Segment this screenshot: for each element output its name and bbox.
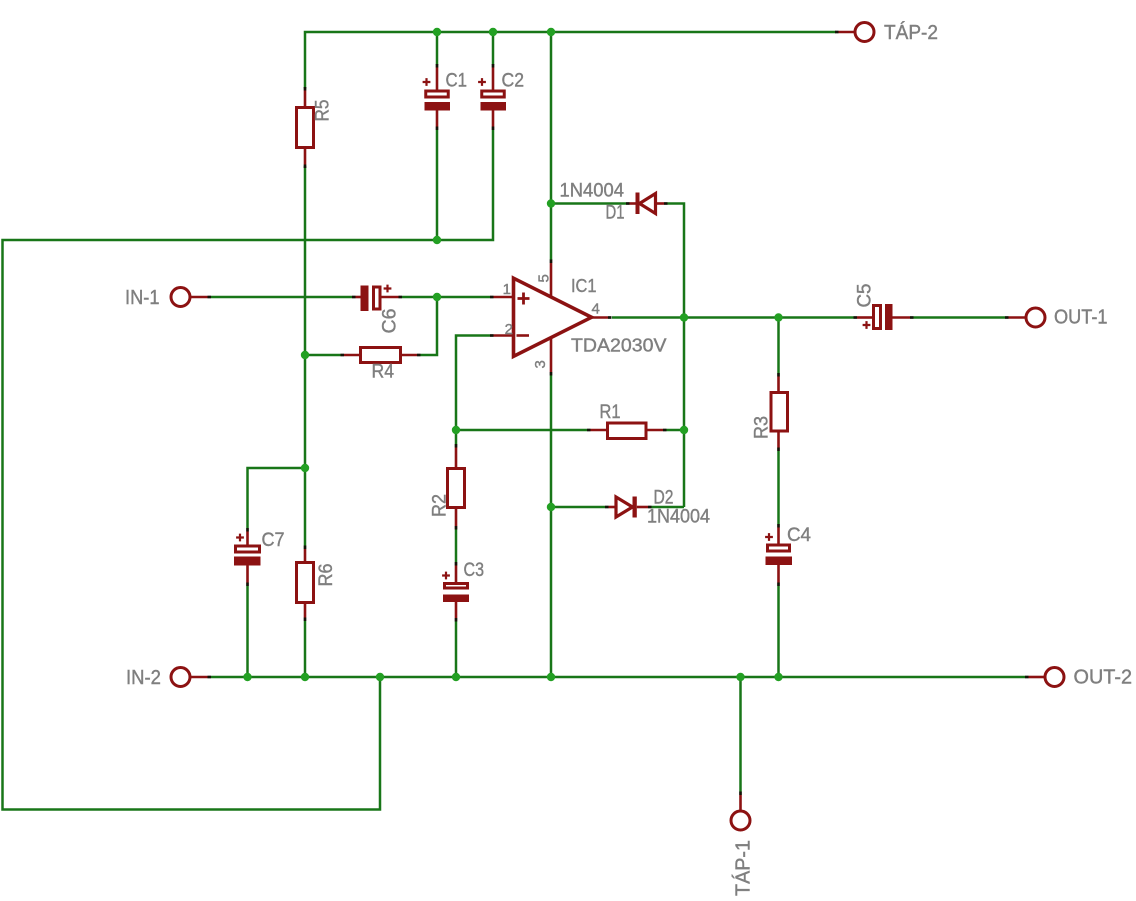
terminal IN-2 <box>171 668 211 687</box>
wire C7 bottom to bottom bus <box>246 586 249 677</box>
wire from x=305 node left and down to C7 top <box>248 468 306 528</box>
svg-text:IN-2: IN-2 <box>126 667 161 689</box>
diode D1 <box>626 193 668 215</box>
wire IC1 pin 2 route left and down to R1 row <box>456 336 490 445</box>
wire big left feedback loop from C2 bottom around left edge to bottom <box>3 130 494 810</box>
wire top supply bus from R5 to TAP-2 terminal <box>305 32 836 89</box>
junction x305 net / R4 row <box>301 351 309 359</box>
svg-text:OUT-2: OUT-2 <box>1074 667 1133 689</box>
junction top bus / C1 <box>433 28 441 36</box>
junction bottom bus / C7 <box>243 673 251 681</box>
junction top bus / x551 net <box>547 28 555 36</box>
wire D1 row left segment <box>551 202 626 205</box>
junction C1 bottom / loop wire <box>433 236 441 244</box>
op-amp IC1 TDA2030V <box>514 278 592 356</box>
wire C5 to OUT-1 terminal <box>914 316 1006 319</box>
wire C6 to IC1 pin 1 <box>402 296 490 299</box>
capacitor C7 <box>234 528 261 586</box>
wire from C6 output node down and left to R4 right lead <box>421 297 438 355</box>
resistor R4 <box>341 348 421 363</box>
terminal TAP-2 <box>835 23 874 42</box>
capacitor C5 <box>854 304 914 330</box>
junction R1 / output loop <box>680 426 688 434</box>
capacitor C3 <box>442 562 469 622</box>
diode D2 <box>605 497 652 518</box>
svg-text:TÁP-2: TÁP-2 <box>884 21 938 44</box>
wire output node down to R3 top <box>777 318 780 374</box>
wire C4 bottom to bottom bus <box>777 586 780 677</box>
junction x551 net / D1 row <box>547 199 555 207</box>
svg-text:4: 4 <box>592 301 600 318</box>
svg-text:R3: R3 <box>752 416 773 439</box>
wire D2 row right segment <box>652 506 685 509</box>
svg-text:TÁP-1: TÁP-1 <box>732 840 755 896</box>
terminal OUT-1 <box>1005 308 1045 327</box>
junction top bus / C2 <box>489 28 497 36</box>
svg-text:1: 1 <box>503 281 511 298</box>
wire R1 row left segment <box>456 429 587 432</box>
wire bottom bus down to TAP-1 terminal <box>739 677 742 792</box>
wire D2 row left segment <box>551 506 605 509</box>
junction output / loop vertical <box>680 313 688 321</box>
wire R2 bottom to C3 top <box>455 530 458 563</box>
resistor R2 <box>448 444 465 530</box>
svg-text:R4: R4 <box>372 362 395 383</box>
svg-text:C1: C1 <box>446 71 468 92</box>
svg-text:R5: R5 <box>313 100 334 122</box>
pin 5 of IC1 <box>550 260 553 298</box>
wire vertical net x=305 from R5 bottom to R6 top <box>304 166 307 546</box>
junction bottom bus / TAP-1 <box>736 673 744 681</box>
wire IN-1 terminal to C6 <box>211 296 352 299</box>
junction bottom bus / pin3 net <box>547 673 555 681</box>
capacitor C1 <box>423 64 450 130</box>
junction x551 net / D2 row <box>547 503 555 511</box>
pin 1 of IC1 <box>490 296 514 299</box>
junction bottom bus / C4 <box>774 673 782 681</box>
wire R4 left lead to x=305 net <box>305 354 341 357</box>
wire C2 top lead to top bus <box>492 32 495 65</box>
junction output / R3 branch <box>774 313 782 321</box>
wire C1 top lead to top bus <box>436 32 439 65</box>
junction bottom bus / R6 <box>301 673 309 681</box>
svg-text:3: 3 <box>532 360 549 368</box>
svg-text:R6: R6 <box>316 564 337 587</box>
junction x305 net / C7 branch <box>301 464 309 472</box>
svg-text:C2: C2 <box>502 71 525 92</box>
junction bottom bus / C3 <box>452 673 460 681</box>
svg-text:C3: C3 <box>464 560 485 581</box>
svg-text:C5: C5 <box>855 284 876 308</box>
junction C6 / pin1 / R4 node <box>433 293 441 301</box>
wire D1 row right segment turning down to output loop <box>668 204 685 508</box>
svg-text:1N4004: 1N4004 <box>647 506 710 528</box>
pin 4 output of IC1 <box>592 316 612 319</box>
junction bottom bus / left loop <box>376 673 384 681</box>
svg-text:IC1: IC1 <box>571 275 597 296</box>
wire R3 bottom to C4 top <box>777 451 780 524</box>
capacitor C4 <box>765 524 792 586</box>
svg-text:2: 2 <box>505 321 513 338</box>
svg-text:C7: C7 <box>262 530 285 551</box>
wire R6 bottom to bottom bus <box>304 621 307 677</box>
wire vertical net x=551 from top bus down to IC1 pin 5 <box>550 32 553 260</box>
resistor R6 <box>297 546 314 622</box>
resistor R5 <box>297 87 314 168</box>
wire IC1 pin 3 down to bottom bus <box>550 376 553 678</box>
resistor R1 <box>587 423 667 439</box>
svg-text:1N4004: 1N4004 <box>560 180 625 202</box>
capacitor C2 <box>478 64 506 130</box>
wire IC1 output pin 4 to C5 <box>612 316 854 319</box>
svg-text:R2: R2 <box>430 494 451 517</box>
wire bottom bus from IN-2 to OUT-2 <box>211 676 1025 679</box>
terminal IN-1 <box>171 288 211 307</box>
wire C1 bottom lead down to node at y=240 <box>436 130 439 240</box>
svg-text:TDA2030V: TDA2030V <box>571 335 667 356</box>
svg-text:C6: C6 <box>380 309 401 334</box>
wire C3 bottom to bottom bus <box>455 622 458 678</box>
svg-text:R1: R1 <box>600 402 621 423</box>
terminal OUT-2 <box>1025 668 1064 687</box>
pin 3 of IC1 <box>550 337 553 376</box>
svg-text:D1: D1 <box>606 203 625 224</box>
svg-text:C4: C4 <box>787 525 811 546</box>
resistor R3 <box>771 373 788 451</box>
junction pin2 net / R1 row <box>452 426 460 434</box>
svg-text:OUT-1: OUT-1 <box>1054 307 1108 329</box>
capacitor C6 <box>352 285 402 311</box>
svg-text:5: 5 <box>536 274 553 282</box>
svg-text:IN-1: IN-1 <box>125 287 160 309</box>
terminal TAP-1 <box>731 792 750 831</box>
wire R1 right lead to output loop <box>667 429 685 432</box>
pin 2 of IC1 <box>490 334 514 337</box>
